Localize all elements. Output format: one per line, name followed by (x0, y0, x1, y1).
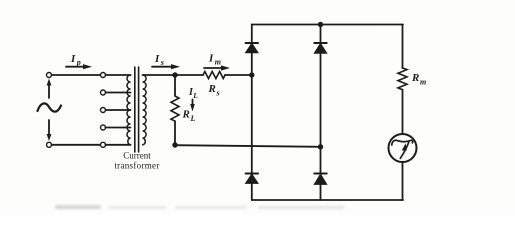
faint cropped caption remnant (55, 205, 101, 209)
wire bridge left leg (251, 25, 253, 201)
diode D2 (314, 43, 326, 53)
svg-text:I: I (154, 53, 160, 65)
wire bridge bottom rail (252, 199, 403, 201)
arrow IL down (190, 100, 195, 112)
arrow Im (204, 65, 230, 70)
wire primary top (52, 74, 101, 76)
primary tap wire 4 (106, 127, 131, 129)
ac source polarity arrow up (47, 79, 52, 86)
wire top rail to Rm (402, 25, 404, 69)
svg-text:L: L (190, 114, 196, 123)
transformer T1 secondary winding (143, 75, 147, 145)
diode D3 (246, 174, 258, 184)
transformer T1 core line 2 (138, 67, 140, 152)
node B junction dot (172, 142, 177, 147)
label Im (208, 53, 221, 67)
svg-text:p: p (76, 58, 81, 67)
diode D4 (314, 174, 326, 185)
primary tap wire 1 (106, 74, 131, 76)
node E junction dot (318, 22, 323, 27)
svg-text:s: s (160, 58, 164, 67)
primary tap wire 3 (106, 109, 131, 111)
label Ip (70, 53, 81, 67)
svg-text:m: m (215, 58, 221, 67)
arrow Is (152, 64, 180, 69)
svg-text:transformer: transformer (114, 161, 159, 171)
resistor Rs (203, 72, 225, 79)
node A junction dot (172, 72, 177, 77)
label Current transformer (114, 151, 159, 171)
wire RL branch lower (174, 121, 176, 145)
node C junction dot (249, 72, 254, 77)
svg-text:R: R (182, 109, 190, 121)
wire primary bottom (52, 144, 101, 146)
resistor Rm (398, 68, 407, 90)
svg-text:R: R (208, 83, 216, 95)
transformer T1 primary winding (127, 75, 130, 145)
label Is (154, 53, 164, 67)
arrow Ip (66, 64, 92, 69)
ac source polarity arrow down (47, 134, 52, 141)
ac source lower lead wire (48, 120, 50, 135)
primary tap circle 2 (101, 90, 106, 95)
wire meter branch lower (402, 162, 404, 200)
diode D1 (246, 43, 258, 52)
ac source upper lead wire (48, 84, 50, 98)
wire secondary top (143, 74, 203, 76)
primary tap circle 5 (101, 142, 106, 147)
primary tap wire 2 (106, 92, 131, 94)
svg-text:s: s (216, 89, 220, 98)
svg-text:m: m (420, 78, 426, 87)
primary tap wire 5 (106, 144, 131, 146)
svg-text:I: I (208, 53, 214, 65)
transformer T1 core line 1 (134, 67, 136, 152)
wire bridge top rail (252, 24, 403, 26)
label IL (188, 87, 198, 100)
label Rs (208, 83, 220, 98)
terminal bottom-left open circle (47, 142, 52, 147)
wire secondary bottom to bridge (175, 145, 321, 147)
wire bridge right leg (320, 25, 322, 201)
label Rm (411, 72, 426, 87)
meter M1 needle (392, 140, 413, 158)
ac source V1 sine symbol (38, 103, 62, 111)
primary tap circle 4 (101, 125, 106, 130)
wire Rs to bridge (225, 74, 252, 76)
svg-text:R: R (411, 72, 419, 84)
wire RL branch upper (174, 75, 176, 96)
resistor RL (171, 96, 179, 121)
wire meter branch upper (402, 90, 404, 134)
primary tap circle 3 (101, 108, 106, 113)
svg-text:I: I (70, 53, 76, 65)
node D junction dot (318, 144, 323, 149)
svg-text:L: L (192, 91, 198, 100)
primary tap circle 1 (101, 73, 106, 78)
svg-text:Current: Current (123, 151, 151, 161)
meter M1 body (389, 134, 417, 162)
label RL (182, 109, 196, 124)
terminal top-left open circle (47, 73, 52, 78)
